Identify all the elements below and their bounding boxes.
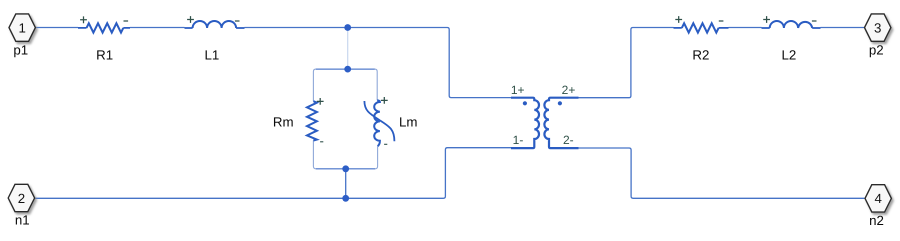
svg-text:3: 3 bbox=[874, 20, 881, 35]
svg-text:2: 2 bbox=[18, 191, 25, 206]
svg-text:R2: R2 bbox=[692, 48, 709, 63]
svg-text:p2: p2 bbox=[869, 42, 884, 57]
svg-text:1-: 1- bbox=[513, 133, 524, 147]
svg-text:p1: p1 bbox=[13, 43, 28, 58]
svg-text:L2: L2 bbox=[782, 48, 797, 63]
svg-text:Rm: Rm bbox=[273, 114, 294, 129]
svg-text:Lm: Lm bbox=[399, 115, 417, 130]
svg-text:R1: R1 bbox=[96, 48, 113, 63]
svg-text:1: 1 bbox=[18, 20, 25, 35]
svg-text:4: 4 bbox=[874, 191, 881, 206]
svg-text:n1: n1 bbox=[15, 213, 30, 228]
svg-text:1+: 1+ bbox=[511, 83, 525, 97]
svg-text:L1: L1 bbox=[205, 48, 220, 63]
svg-text:2+: 2+ bbox=[562, 83, 576, 97]
svg-text:n2: n2 bbox=[869, 213, 884, 228]
svg-text:2-: 2- bbox=[563, 133, 574, 147]
